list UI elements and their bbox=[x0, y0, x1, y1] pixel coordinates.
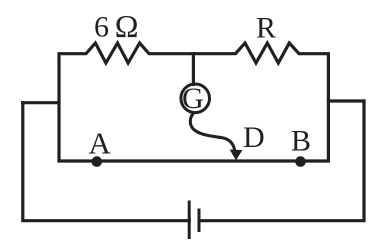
svg-text:B: B bbox=[291, 125, 311, 158]
svg-text:D: D bbox=[243, 121, 265, 154]
svg-text:G: G bbox=[182, 82, 204, 115]
svg-text:Ω: Ω bbox=[115, 8, 139, 44]
svg-text:A: A bbox=[89, 126, 112, 161]
svg-text:R: R bbox=[256, 12, 276, 45]
svg-text:6: 6 bbox=[94, 11, 109, 44]
